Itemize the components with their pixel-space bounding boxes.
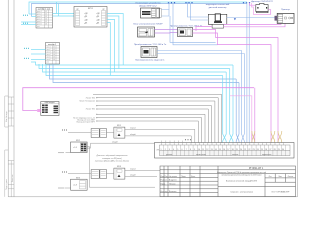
svg-text:створки на 43 (зона): створки на 43 (зона): [102, 157, 122, 160]
svg-text:общий: общий: [130, 133, 136, 136]
svg-text:лин 3: лин 3: [47, 52, 51, 54]
margin rotated text: [5, 110, 14, 190]
svg-text:автоматики дополнительной подс: автоматики дополнительной подсети № 4/83…: [221, 174, 261, 177]
svg-text:05: 05: [45, 21, 47, 23]
svg-text:рез: рез: [47, 62, 50, 64]
svg-text:11: 11: [202, 149, 204, 151]
wire blue rails: [162, 2, 250, 143]
svg-text:Преобразователь видеосигн.: Преобразователь видеосигн.: [135, 59, 165, 61]
svg-text:8: 8: [190, 149, 191, 151]
svg-text:РГ.0821-КР 1: РГ.0821-КР 1: [249, 167, 264, 170]
strip wires colored hooks: [252, 131, 282, 143]
svg-text:общий: общий: [112, 141, 118, 144]
svg-text:лин 5: лин 5: [47, 57, 51, 59]
svg-text:3: 3: [169, 149, 170, 151]
svg-text:ООО "СТРОЙМАСТЕР": ООО "СТРОЙМАСТЕР": [271, 191, 290, 194]
svg-text:Лист: Лист: [278, 176, 282, 178]
cable dots block2: [24, 48, 29, 59]
module BP1 big block: [74, 7, 107, 28]
wire magenta adapter: [250, 3, 271, 15]
note text: [94, 154, 130, 163]
svg-text:15: 15: [219, 149, 221, 151]
connector XS2 block2: [46, 43, 60, 65]
svg-text:14: 14: [215, 149, 217, 151]
svg-text:16: 16: [223, 149, 225, 151]
svg-text:GSM модем: GSM модем: [44, 102, 55, 104]
node junction dots top rails: [168, 2, 250, 3]
wire blue verticals to strip with crossover: [236, 79, 239, 143]
svg-text:30: 30: [282, 149, 284, 151]
svg-text:Альбомных включений завод ДИО-: Альбомных включений завод ДИО-ВУК: [226, 180, 257, 183]
svg-text:06: 06: [45, 24, 47, 26]
svg-text:Выход интернет ВРУ: Выход интернет ВРУ: [77, 122, 96, 124]
svg-text:18: 18: [232, 149, 234, 151]
wire violet PSU out: [155, 30, 178, 34]
svg-text:Петров: Петров: [169, 183, 175, 185]
svg-text:Пров.: Пров.: [161, 183, 166, 185]
svg-text:04: 04: [45, 19, 47, 21]
svg-text:рез: рез: [37, 26, 40, 28]
svg-text:4: 4: [173, 149, 174, 151]
wire magenta keyboard: [196, 23, 285, 31]
wire cyan into block2: [31, 50, 46, 60]
svg-text:9: 9: [194, 149, 195, 151]
frame left margin: [8, 0, 297, 197]
svg-text:12: 12: [206, 149, 208, 151]
wire cyan from BP1 right pins: [107, 14, 123, 76]
svg-text:04: 04: [53, 54, 55, 56]
svg-text:Андреев: Андреев: [169, 179, 177, 182]
svg-text:лин 4: лин 4: [47, 54, 51, 56]
svg-text:литерал ЦВ-мп-3А2 у педаль Вых: литерал ЦВ-мп-3А2 у педаль Выход: [94, 160, 130, 163]
svg-text:Линия Телефония: Линия Телефония: [79, 100, 95, 103]
wire pink adapter loop: [252, 3, 271, 15]
wire cyan fan buses: [31, 62, 233, 76]
svg-text:19: 19: [236, 149, 238, 151]
wire magenta TCO out to pink verticals: [193, 30, 279, 132]
svg-text:03: 03: [45, 16, 47, 18]
wire magenta modem: [37, 109, 41, 112]
svg-text:10: 10: [198, 149, 200, 151]
svg-text:датч 6: датч 6: [37, 24, 42, 26]
svg-text:Собрание с электросхемами: Собрание с электросхемами: [230, 192, 253, 194]
node marker: [234, 18, 236, 20]
svg-text:24: 24: [257, 149, 259, 151]
svg-text:25: 25: [261, 149, 263, 151]
cable dots: [23, 15, 28, 24]
wire pink upper line: [230, 96, 252, 131]
svg-text:Взам. инв.: Взам. инв.: [12, 174, 14, 182]
svg-text:Н.контр.: Н.контр.: [161, 191, 169, 193]
svg-text:перекл: перекл: [130, 128, 136, 130]
svg-text:Блок электропитания ПЭ-ВР: Блок электропитания ПЭ-ВР: [133, 23, 163, 25]
wire cyan top bus: [29, 2, 247, 17]
title block: [160, 166, 296, 197]
svg-text:06: 06: [53, 59, 55, 61]
svg-text:02: 02: [45, 14, 47, 16]
svg-text:Адаптер CD/DVD/СП: Адаптер CD/DVD/СП: [251, 0, 273, 3]
svg-text:2: 2: [165, 149, 166, 151]
svg-text:лин 1: лин 1: [47, 47, 51, 49]
device PSU U3: [138, 27, 155, 37]
svg-text:лин 2: лин 2: [47, 49, 51, 51]
svg-text:7: 7: [186, 149, 187, 151]
svg-text:Лит: Лит: [269, 176, 272, 178]
svg-text:Линия ТВ2: Линия ТВ2: [86, 97, 95, 99]
wire gray nested fan to strip: [93, 94, 222, 142]
svg-text:Извещатель Приемный РУБ-3в реч: Извещатель Приемный РУБ-3в речевыми прав…: [217, 171, 266, 174]
svg-text:лин 6: лин 6: [47, 59, 51, 61]
wire cyan verticals to strip with crossover: [223, 65, 233, 143]
svg-text:6: 6: [182, 149, 183, 151]
svg-text:Преобразователь ТСО-108 и Тп: Преобразователь ТСО-108 и Тп: [134, 44, 167, 46]
svg-text:датч 5: датч 5: [37, 21, 42, 23]
svg-text:28: 28: [274, 149, 276, 151]
svg-text:№ докум.: № докум.: [169, 175, 178, 178]
svg-text:21: 21: [244, 149, 246, 151]
signal label lines: [73, 97, 96, 123]
connector XS1 block1: [36, 8, 53, 29]
svg-text:Принтер: Принтер: [281, 9, 290, 11]
modem XT block: [41, 102, 59, 116]
svg-text:ВРУ1: ВРУ1: [88, 8, 94, 10]
svg-text:02: 02: [53, 49, 55, 51]
svg-text:датч 3: датч 3: [37, 16, 42, 18]
svg-text:05: 05: [53, 57, 55, 59]
svg-text:шлейф 2: шлейф 2: [48, 43, 57, 46]
pin rows text: [84, 13, 101, 25]
svg-text:17: 17: [227, 149, 229, 151]
svg-text:шлейф 1 каб: шлейф 1 каб: [38, 8, 51, 11]
relay group 1: [62, 129, 67, 130]
wire group2: [68, 170, 160, 187]
svg-text:линии связи: линии связи: [196, 154, 206, 156]
svg-text:27: 27: [269, 149, 271, 151]
wire pink verticals to strip: [252, 88, 278, 143]
svg-text:5: 5: [177, 149, 178, 151]
wire group1: [68, 129, 195, 142]
svg-text:Инв. № подл.: Инв. № подл.: [5, 110, 8, 122]
strip terminal ticks: [162, 141, 284, 146]
svg-text:датчики: датчики: [166, 154, 172, 156]
svg-text:Азимут ВПУ 02-2: Азимут ВПУ 02-2: [139, 4, 157, 7]
svg-text:Подп.: Подп.: [181, 176, 186, 178]
svg-text:Датчик с обраткой открывания: Датчик с обраткой открывания: [96, 154, 129, 157]
svg-text:датч 2: датч 2: [37, 14, 42, 16]
svg-text:22: 22: [248, 149, 250, 151]
wire blue camera2 out: [157, 51, 244, 143]
svg-text:26: 26: [265, 149, 267, 151]
svg-text:дисплей монитор: дисплей монитор: [209, 6, 227, 9]
svg-text:20: 20: [240, 149, 242, 151]
svg-text:перекл: перекл: [130, 169, 136, 171]
svg-text:Печатающее устройство: Печатающее устройство: [136, 2, 162, 5]
svg-text:01: 01: [45, 11, 47, 13]
svg-text:Листов: Листов: [288, 176, 294, 178]
svg-text:01: 01: [53, 47, 55, 49]
svg-text:жидкокристаллический: жидкокристаллический: [206, 3, 230, 6]
svg-text:Волкова: Волкова: [169, 191, 177, 193]
svg-text:Подп. и дата: Подп. и дата: [6, 179, 8, 190]
svg-text:питание: питание: [232, 154, 238, 156]
svg-text:видеоканал: видеоканал: [262, 154, 271, 156]
svg-text:29: 29: [278, 149, 280, 151]
svg-text:23: 23: [253, 149, 255, 151]
margin ticks: [5, 96, 14, 197]
svg-text:Линия ТВ1: Линия ТВ1: [86, 109, 95, 111]
terminal strip XT1: [185, 139, 191, 140]
wire cyan into block1: [21, 2, 74, 25]
svg-text:1: 1: [161, 149, 162, 151]
svg-text:Разраб.: Разраб.: [161, 180, 168, 182]
wire blue into computer: [188, 2, 278, 20]
svg-text:датч 1: датч 1: [37, 11, 42, 13]
svg-text:13: 13: [211, 149, 213, 151]
svg-text:03: 03: [53, 52, 55, 54]
svg-text:датч 4: датч 4: [37, 19, 42, 21]
relay group 2: [62, 171, 67, 172]
svg-text:общий: общий: [130, 174, 136, 177]
wire from BU1: [66, 143, 155, 187]
